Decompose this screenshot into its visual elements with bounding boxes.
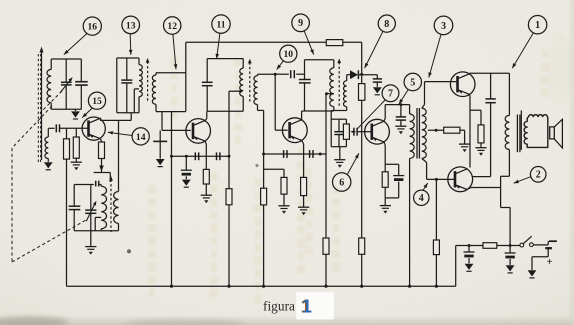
wire (to T3 base): [274, 74, 276, 130]
driver transformer primary L11: [409, 105, 411, 114]
wire (T4 emitter): [384, 142, 385, 145]
ground: [201, 194, 212, 196]
wire: [346, 107, 348, 111]
wire (T2 emitter): [205, 141, 206, 144]
wire: [357, 131, 372, 133]
oscillator core (dashed with arrow): [110, 180, 112, 233]
output transformer primary L13: [508, 73, 510, 115]
svg-text:7: 7: [388, 89, 393, 100]
svg-text:2: 2: [536, 170, 541, 181]
wire: [385, 197, 399, 199]
ferrite rod antenna (vertical line with arrow): [41, 52, 43, 160]
wire (T3 emitter): [302, 141, 304, 144]
callout 11: [212, 15, 230, 33]
wire: [455, 246, 457, 287]
wire (T2 collector): [205, 119, 207, 121]
coupling coil L2: [45, 137, 48, 159]
callout 7: [382, 85, 399, 102]
capacitor C15: [283, 150, 285, 158]
capacitor C18: [338, 119, 340, 131]
wire: [435, 179, 437, 240]
variable capacitor C1 (tuning, callout 16): [65, 59, 67, 82]
capacitor C4 (osc series): [95, 181, 97, 187]
ferrite rod dashed outline: [37, 54, 39, 162]
filter capacitor C17: [373, 78, 382, 80]
wire: [156, 72, 186, 74]
bypass capacitor C21: [398, 164, 400, 175]
electrolytic capacitor C24: [509, 246, 511, 253]
wire (primary return to bus): [409, 158, 411, 286]
wire: [532, 256, 548, 258]
callout 6: [333, 173, 351, 191]
svg-text:15: 15: [92, 96, 102, 107]
bus junction: [262, 285, 265, 288]
node: [399, 103, 402, 106]
emitter resistor R4: [203, 169, 209, 184]
wire: [296, 73, 304, 75]
wire (to T6 base): [422, 158, 427, 162]
emitter resistor R3: [100, 139, 103, 142]
svg-text:3: 3: [441, 21, 446, 32]
callout 8: [378, 15, 395, 32]
wire (tap/AVC divider to bus): [325, 94, 327, 154]
svg-text:4: 4: [419, 193, 424, 204]
wire: [533, 244, 548, 246]
resistor R16: [478, 125, 484, 143]
resistor R14: [444, 127, 460, 133]
ground: [465, 264, 474, 270]
battery B1: [547, 241, 549, 245]
driver transformer secondary L12: [422, 108, 426, 158]
ground: [395, 125, 406, 127]
IF1 primary coil L5 (callout 13): [138, 58, 140, 65]
resistor R12: [359, 238, 365, 254]
transistor T6 (lower output, callout 4): [448, 167, 473, 192]
svg-text:1: 1: [302, 295, 312, 316]
ground: [528, 270, 537, 276]
ground: [156, 159, 165, 165]
ground: [459, 143, 470, 145]
output transformer secondary L14: [520, 110, 522, 150]
capacitor C16: [309, 150, 311, 158]
top rail (callout 1): [470, 72, 510, 74]
ground: [44, 162, 53, 168]
wire: [74, 184, 94, 186]
IF1 secondary coil L6 (callout 12): [155, 73, 157, 75]
coil tap: [326, 93, 334, 95]
capacitor C12: [194, 152, 196, 160]
svg-text:9: 9: [298, 18, 303, 29]
bus junction: [435, 285, 438, 288]
ground: [278, 205, 289, 207]
capacitor C20 (callout 5): [400, 105, 402, 117]
svg-text:5: 5: [410, 77, 415, 88]
callout 16: [83, 17, 101, 35]
bus junction: [360, 285, 363, 288]
wire (T6 emitter): [467, 188, 471, 190]
capacitor C3 (base coupling): [55, 124, 57, 132]
transistor T4 (AF driver): [365, 119, 390, 144]
svg-text:10: 10: [284, 49, 294, 60]
wire: [156, 111, 186, 113]
speaker voice coil: [524, 115, 548, 148]
wire: [207, 110, 243, 112]
diode D1 (detector, callout 8): [347, 74, 350, 76]
fixed capacitor C5: [73, 185, 75, 207]
output transformer core: [516, 115, 518, 153]
resistor R7: [281, 177, 287, 194]
wiper arrow: [352, 131, 356, 133]
wire: [331, 118, 346, 120]
resistor R5: [226, 189, 232, 205]
callout 13: [122, 16, 140, 34]
callout 10: [280, 45, 297, 62]
transistor T1 (callout 15): [82, 117, 105, 140]
node: [435, 178, 438, 181]
wire (to T5 base): [422, 105, 425, 109]
wire (T3 collector): [301, 111, 303, 120]
wire (T4 collector): [384, 119, 385, 122]
svg-text:8: 8: [384, 19, 389, 30]
IF3 secondary coil L10: [346, 75, 348, 81]
capacitor C11: [304, 60, 306, 80]
ground: [298, 206, 309, 208]
wire: [385, 163, 399, 165]
ganged tuning dashed link: [12, 220, 86, 262]
callout 3: [434, 16, 453, 35]
wire: [51, 108, 81, 110]
ground: [71, 161, 82, 163]
ground: [380, 205, 391, 207]
electrolytic capacitor C14: [185, 156, 187, 170]
wire: [48, 127, 54, 129]
resistor R6: [261, 188, 267, 205]
ground: [90, 231, 92, 247]
wire: [172, 155, 230, 157]
node: [262, 153, 265, 156]
ground: [506, 265, 515, 271]
wire (to T2 base): [161, 112, 163, 131]
wire (collector to IF1): [100, 119, 131, 121]
transistor T3: [282, 118, 307, 143]
wire (to oscillator feedback coil): [118, 120, 120, 191]
resistor R10: [323, 238, 329, 254]
transistor T5 (upper output, callout 3): [450, 72, 475, 97]
capacitor C10: [290, 70, 292, 78]
wire: [207, 58, 243, 60]
wire (tap to bus): [228, 111, 230, 156]
ground: [75, 109, 77, 111]
resistor R2: [75, 128, 77, 137]
capacitor C22: [490, 73, 492, 99]
wire: [116, 58, 118, 113]
ink blot: [255, 164, 258, 167]
callout 9: [292, 14, 310, 32]
capacitor C7: [126, 58, 128, 80]
wire: [117, 57, 139, 59]
svg-text:+: +: [547, 257, 553, 268]
wire: [497, 245, 520, 247]
wire: [472, 176, 491, 178]
wire: [258, 73, 276, 75]
coil tap: [134, 88, 139, 90]
wire (supply rail drop): [185, 42, 187, 111]
capacitor C13: [216, 152, 218, 160]
bus junction: [227, 285, 230, 288]
callout 2: [530, 167, 546, 183]
callout 15: [88, 92, 105, 109]
IF2 secondary coil L8: [257, 74, 259, 76]
wire (AVC line, callout 6 target): [361, 100, 363, 238]
wire: [51, 58, 81, 60]
electrolytic capacitor C23: [468, 246, 470, 252]
ink blot: [127, 249, 131, 253]
coil tap: [95, 216, 101, 218]
resistor R17: [483, 243, 497, 249]
bus junction: [324, 285, 327, 288]
potentiometer P1 (volume, callout 7): [343, 124, 349, 139]
svg-text:14: 14: [136, 132, 146, 143]
wire (T5 collector to rail): [469, 72, 471, 75]
driver transformer core: [416, 108, 418, 159]
wire: [60, 127, 89, 129]
wire: [264, 168, 284, 170]
speaker cone: [550, 127, 555, 139]
emitter resistor R8: [301, 177, 307, 195]
wire (primary to supply): [508, 150, 510, 177]
bus junction: [170, 285, 173, 288]
callout 14: [132, 128, 149, 145]
wire: [74, 230, 118, 232]
base bypass capacitor C8: [159, 130, 161, 141]
wire: [385, 104, 409, 106]
callout 1: [528, 16, 546, 34]
ground: [373, 87, 382, 93]
wire: [470, 109, 481, 111]
svg-text:12: 12: [167, 21, 177, 32]
switch S1: [520, 243, 524, 247]
svg-text:13: 13: [126, 20, 136, 31]
IF3 primary coil L9 (callout 9): [333, 60, 335, 68]
coil tap: [229, 90, 241, 92]
oscillator feedback coil L4: [114, 192, 119, 224]
node: [468, 244, 471, 247]
svg-text:11: 11: [216, 20, 225, 31]
wire: [305, 110, 334, 112]
wire with down arrow: [101, 159, 103, 173]
wire (secondary return to bus): [171, 112, 173, 287]
ground: [339, 147, 341, 160]
node: [360, 73, 363, 76]
callout 12: [164, 17, 181, 34]
supply wire: [456, 245, 483, 247]
wire: [117, 112, 139, 114]
wire: [94, 172, 111, 174]
wire (secondary return to bus): [263, 110, 265, 154]
callout 4: [414, 190, 429, 205]
transistor T2: [186, 119, 211, 144]
wire: [460, 129, 465, 131]
wire: [264, 153, 326, 155]
resistor R11 (detector load): [361, 74, 363, 83]
resistor R1: [66, 128, 68, 139]
wire: [358, 74, 377, 76]
wire: [305, 59, 334, 61]
wire: [275, 73, 289, 75]
node: [170, 155, 173, 158]
oscillator coil L3: [100, 185, 102, 187]
ground bus: [67, 285, 456, 287]
capacitor C9: [206, 59, 208, 83]
fixed capacitor C2: [80, 59, 82, 82]
resistor R15: [433, 240, 439, 255]
coupling capacitor C19: [353, 128, 355, 136]
resistor R9 (AVC decoupling): [326, 40, 343, 46]
wire: [331, 146, 346, 148]
IF3 core (dashed with arrow): [338, 62, 340, 107]
variable capacitor C6 (osc tuning): [90, 185, 92, 211]
wire: [343, 41, 362, 43]
center tap wire: [428, 129, 444, 131]
IF2 primary coil L7 (callout 11): [242, 59, 244, 69]
wire (T5 emitter to T6): [469, 94, 471, 97]
svg-text:figura: figura: [263, 299, 295, 314]
ground: [182, 180, 191, 186]
bus junction: [408, 285, 411, 288]
callout 5: [404, 73, 421, 90]
svg-text:1: 1: [535, 20, 540, 31]
svg-text:16: 16: [88, 22, 98, 33]
wire: [257, 105, 259, 111]
node (callout 10 junction): [274, 73, 277, 76]
svg-text:6: 6: [339, 177, 344, 188]
supply rail: [186, 41, 326, 43]
emitter resistor R13: [384, 164, 386, 172]
IF2 core (dashed with arrow): [249, 62, 251, 101]
IF1 core (dashed with arrow): [147, 62, 149, 102]
wire (R1 to supply bus): [66, 159, 68, 286]
antenna coil L1: [47, 69, 51, 102]
ground: [475, 147, 486, 149]
